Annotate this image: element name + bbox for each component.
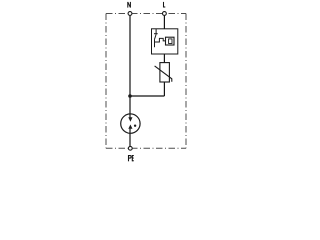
terminal N	[128, 12, 132, 16]
varistor RV1	[155, 63, 172, 82]
wire N vertical	[129, 16, 131, 118]
terminal L	[163, 12, 167, 16]
wire varistor down	[163, 82, 165, 96]
wire horizontal varistor to N	[130, 95, 164, 97]
wire box to varistor	[163, 54, 165, 63]
junction node	[128, 94, 132, 98]
terminal PE	[128, 146, 132, 150]
enclosure dash-dot border left edge	[105, 14, 107, 149]
enclosure dash-dot border right edge	[185, 14, 187, 149]
spark gap bottom arrow	[128, 125, 132, 129]
wire L vertical upper	[163, 16, 165, 29]
wire N lower to PE	[129, 129, 131, 147]
spark gap F1	[121, 114, 140, 133]
spark gap top arrow	[128, 117, 132, 122]
label N	[128, 2, 131, 8]
enclosure dash-dot border bottom edge	[106, 147, 186, 149]
label PE	[129, 155, 134, 161]
spark gap trigger dot	[134, 125, 136, 127]
label L	[164, 2, 166, 8]
enclosure dash-dot border top edge	[106, 13, 186, 15]
disconnector U1 box	[152, 29, 178, 54]
